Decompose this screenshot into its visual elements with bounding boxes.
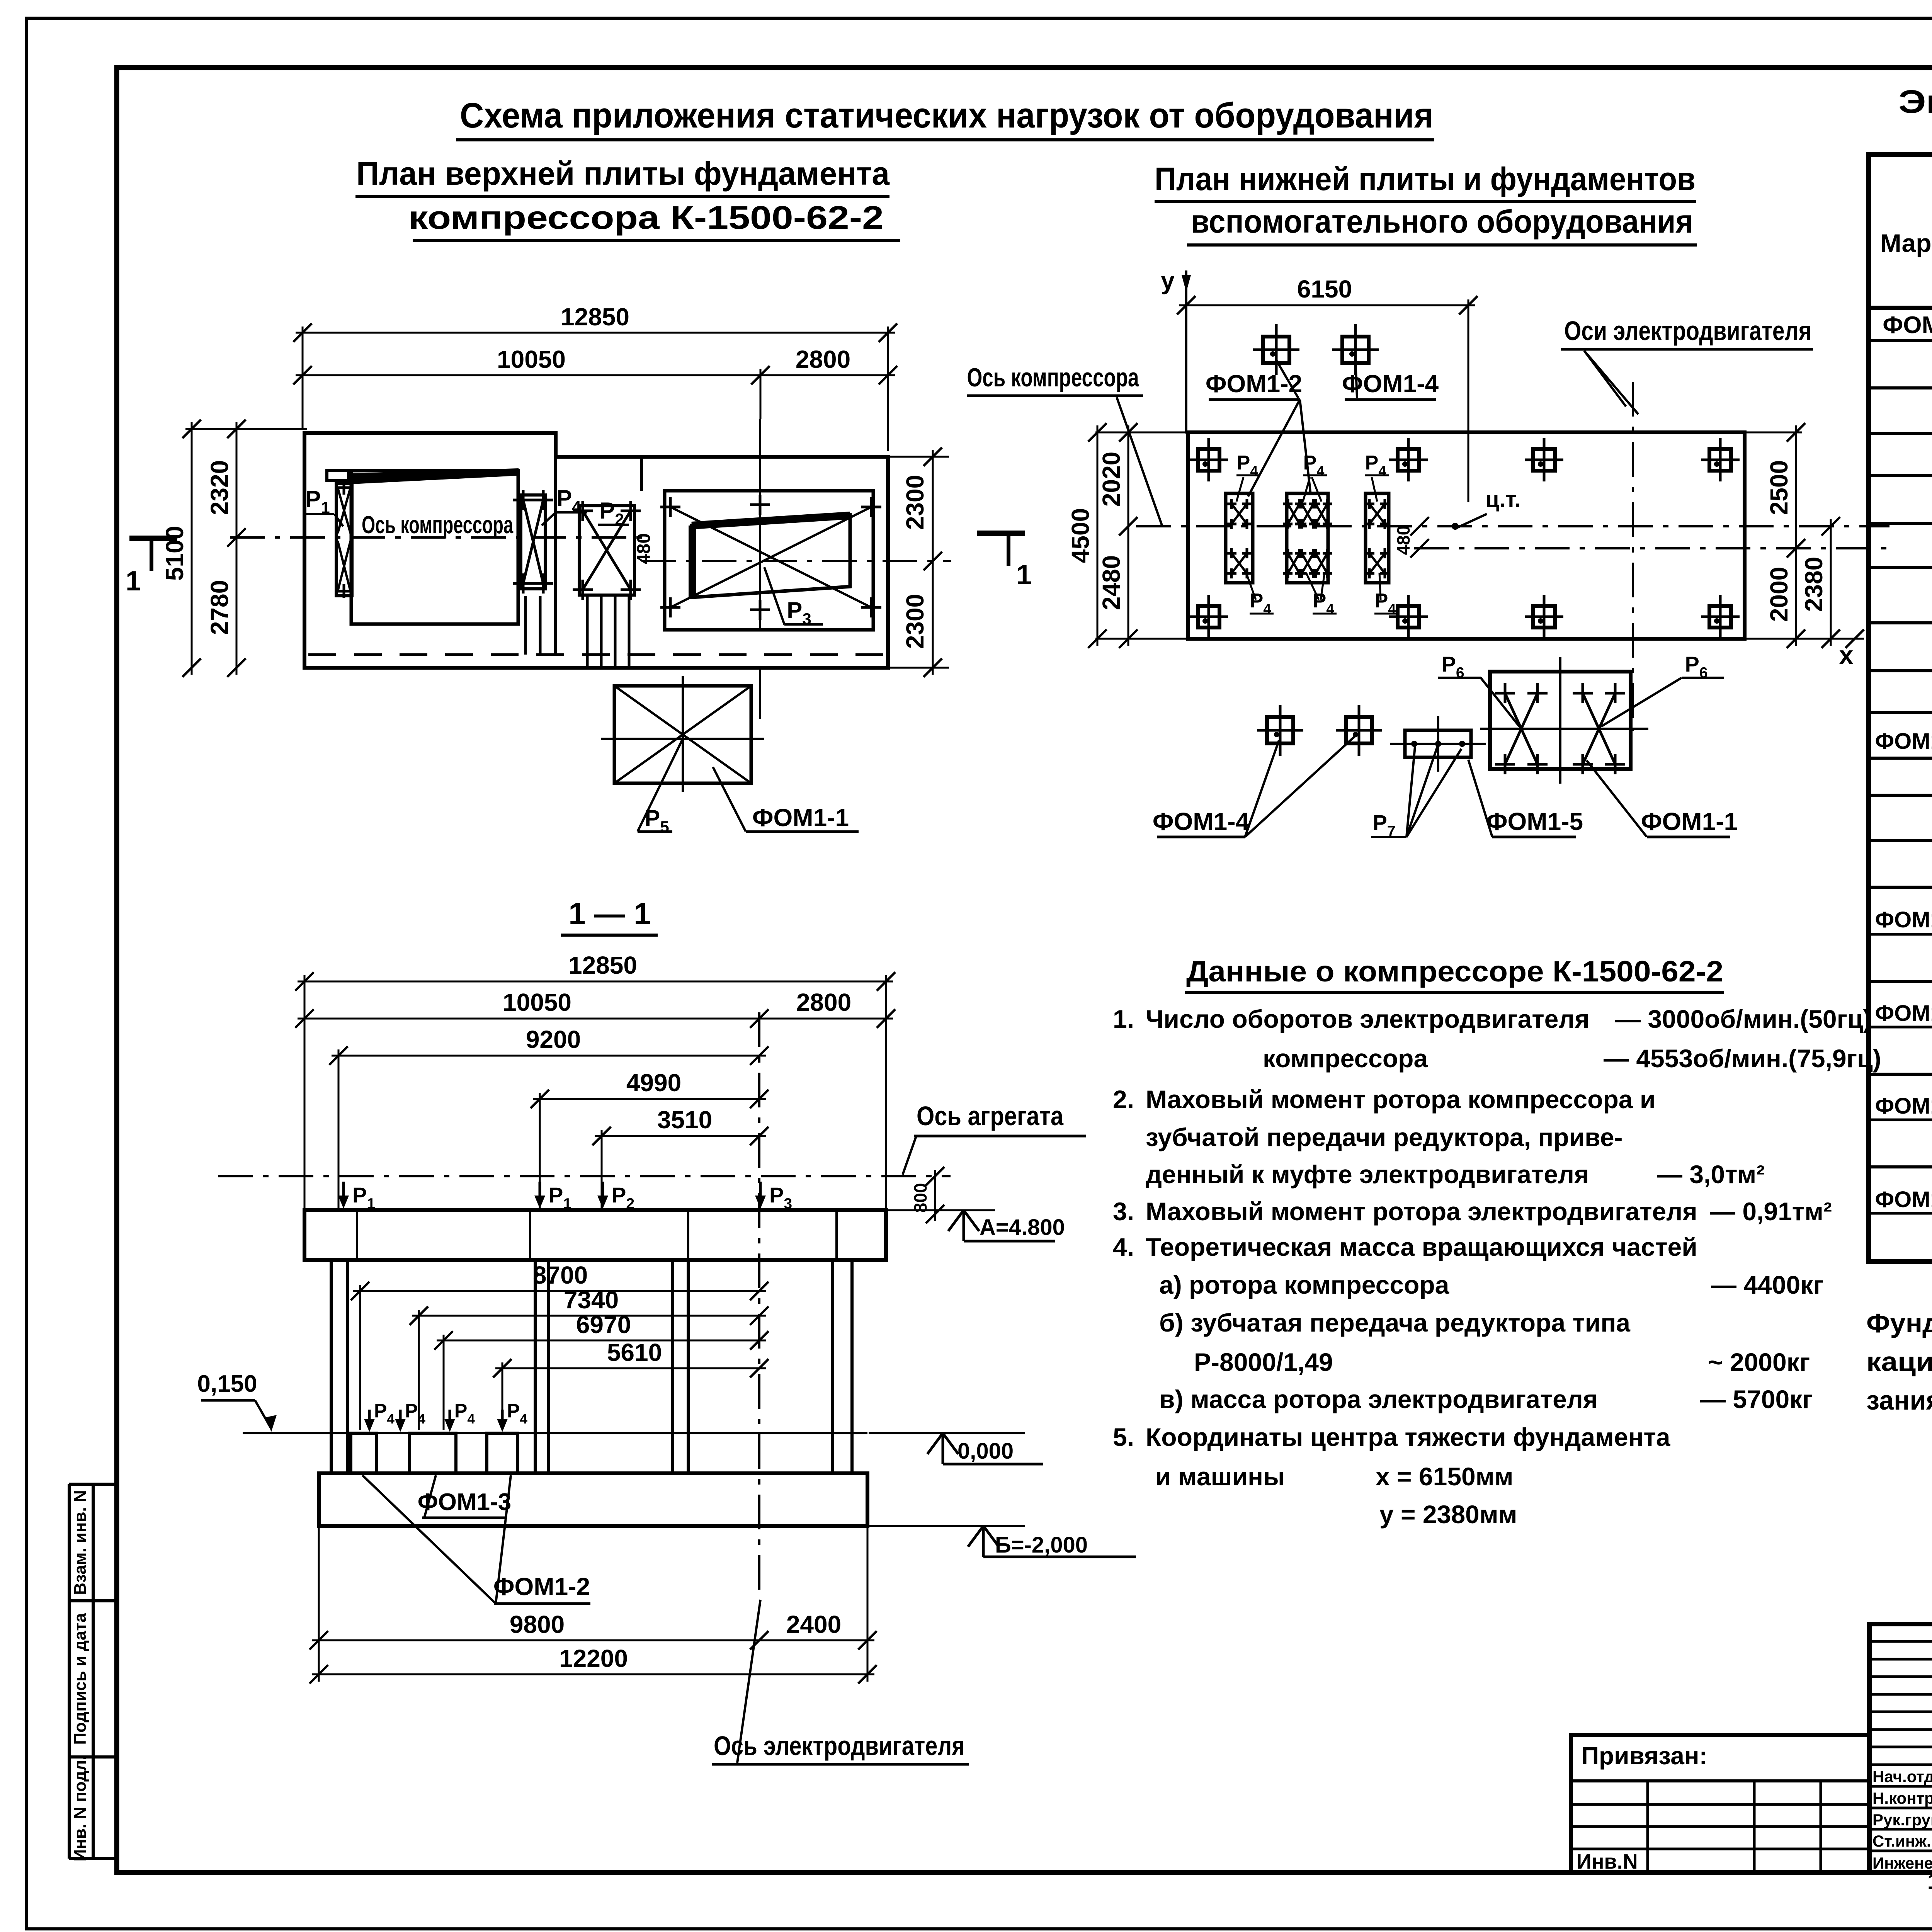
svg-text:— 3000об/мин.(50гц): — 3000об/мин.(50гц) xyxy=(1615,1005,1872,1033)
svg-text:2320: 2320 xyxy=(206,460,233,515)
ground level line xyxy=(243,1432,867,1434)
compressor axis line xyxy=(230,536,643,539)
svg-text:4.: 4. xyxy=(1113,1233,1134,1261)
anchor bolts top row xyxy=(1198,449,1219,471)
svg-text:Данные о компрессоре К-1500-62: Данные о компрессоре К-1500-62-2 xyxy=(1186,955,1723,988)
svg-text:2500: 2500 xyxy=(1765,460,1793,515)
motor center vertical xyxy=(759,419,761,630)
section mark 1 right side xyxy=(977,531,1025,536)
svg-text:2400: 2400 xyxy=(786,1611,841,1638)
svg-text:5.: 5. xyxy=(1113,1423,1134,1451)
svg-text:x = 6150мм: x = 6150мм xyxy=(1376,1462,1513,1491)
svg-text:Теоретическая масса вращающихс: Теоретическая масса вращающихся частей xyxy=(1146,1233,1697,1261)
svg-text:Привязан:: Привязан: xyxy=(1581,1742,1708,1770)
compressor axis middle plan xyxy=(1136,525,1889,527)
foundation FOM1-1 plan right xyxy=(1490,672,1631,769)
svg-text:ФОМ1-5: ФОМ1-5 xyxy=(1486,808,1583,835)
section dim 5610 xyxy=(495,1367,766,1369)
svg-text:480: 480 xyxy=(1393,526,1413,555)
pipes below compressor xyxy=(524,596,527,655)
svg-text:компрессора К-1500-62-2: компрессора К-1500-62-2 xyxy=(408,199,884,236)
svg-text:2800: 2800 xyxy=(796,988,851,1016)
left plan dim 12850 xyxy=(296,332,895,334)
table row lines xyxy=(1869,339,1932,342)
svg-text:денный к муфте электродвигател: денный к муфте электродвигателя xyxy=(1146,1160,1589,1189)
division wall xyxy=(554,457,557,655)
svg-text:б) зубчатая передача редуктора: б) зубчатая передача редуктора типа xyxy=(1159,1308,1631,1337)
svg-text:Нач.отд.: Нач.отд. xyxy=(1872,1767,1932,1786)
svg-text:— 5700кг: — 5700кг xyxy=(1700,1385,1813,1413)
svg-text:1 — 1: 1 — 1 xyxy=(568,896,651,931)
svg-text:Координаты центра тяжести фунд: Координаты центра тяжести фундамента xyxy=(1146,1423,1671,1451)
svg-text:Ось компрессора: Ось компрессора xyxy=(362,511,513,539)
section dim 9200 xyxy=(332,1055,766,1057)
svg-text:Ст.инж.: Ст.инж. xyxy=(1872,1832,1931,1850)
svg-text:Взам. инв. N: Взам. инв. N xyxy=(71,1490,90,1595)
middle plan right dim 2380 xyxy=(1830,519,1832,646)
left plan dim 10050 and 2800 xyxy=(296,374,895,376)
svg-text:12850: 12850 xyxy=(561,303,629,331)
svg-text:— 4553об/мин.(75,9гц): — 4553об/мин.(75,9гц) xyxy=(1604,1044,1881,1073)
load arrow P2 xyxy=(602,1182,604,1204)
elevation 0.000 xyxy=(869,1432,1025,1434)
foundation FOM1-5 plan xyxy=(1405,730,1471,757)
svg-text:Рук.группы: Рук.группы xyxy=(1872,1811,1932,1829)
svg-text:Марка: Марка xyxy=(1880,229,1932,257)
svg-text:1: 1 xyxy=(1927,1869,1932,1893)
svg-text:Ось компрессора: Ось компрессора xyxy=(967,363,1139,392)
svg-text:Инв.N: Инв.N xyxy=(1577,1850,1638,1873)
svg-text:10050: 10050 xyxy=(503,988,571,1016)
svg-text:10050: 10050 xyxy=(497,345,566,373)
pedestal rect 3 xyxy=(1366,493,1389,583)
svg-text:12200: 12200 xyxy=(559,1645,628,1672)
motor axis vertical section xyxy=(758,1012,760,1596)
svg-text:План нижней плиты и фундаменто: План нижней плиты и фундаментов xyxy=(1155,161,1696,197)
foundation FOM1-1 oil tank plan xyxy=(614,686,751,783)
table outer frame xyxy=(1869,155,1932,1262)
section dim 12850 xyxy=(298,981,893,983)
middle plan right dims 2500 2000 xyxy=(1795,425,1797,646)
svg-text:— 0,91тм²: — 0,91тм² xyxy=(1710,1197,1832,1226)
svg-text:1: 1 xyxy=(1016,560,1032,590)
motor axis horizontal middle plan xyxy=(1414,547,1891,549)
svg-text:— 4400кг: — 4400кг xyxy=(1711,1270,1824,1299)
middle plan left dims 2020 2480 xyxy=(1128,425,1129,646)
svg-text:0,000: 0,000 xyxy=(957,1439,1014,1464)
dim 800 xyxy=(934,1170,936,1221)
svg-text:План верхней плиты фундамента: План верхней плиты фундамента xyxy=(356,155,890,192)
svg-text:и машины: и машины xyxy=(1155,1462,1285,1491)
bolt group P4 rectangle xyxy=(521,495,545,589)
svg-text:2000: 2000 xyxy=(1765,567,1793,622)
svg-text:3510: 3510 xyxy=(657,1106,712,1134)
aircooler pads above slab xyxy=(1263,337,1289,363)
svg-text:а) ротора компрессора: а) ротора компрессора xyxy=(1159,1270,1450,1299)
svg-text:2780: 2780 xyxy=(206,580,233,635)
left filing strip xyxy=(68,1484,71,1859)
svg-text:6970: 6970 xyxy=(576,1311,631,1338)
svg-text:800: 800 xyxy=(910,1183,930,1213)
svg-text:ФОМ1-4: ФОМ1-4 xyxy=(1153,808,1250,835)
svg-text:ФОМ1-2: ФОМ1-2 xyxy=(493,1573,590,1600)
left plan outline of upper slab xyxy=(304,433,888,668)
section dim 3510 xyxy=(595,1135,766,1137)
elevation mark A=4.800 xyxy=(888,1209,995,1211)
svg-text:3.: 3. xyxy=(1113,1197,1134,1226)
bolt group P1 rectangle xyxy=(336,483,352,596)
svg-text:Инв. N подл.: Инв. N подл. xyxy=(71,1755,90,1862)
privyazan box xyxy=(1571,1735,1869,1872)
svg-text:ФОМ1-4: ФОМ1-4 xyxy=(1875,1094,1932,1119)
left plan small notch xyxy=(327,471,349,481)
svg-text:0,150: 0,150 xyxy=(197,1371,257,1397)
section dim 12200 xyxy=(312,1673,874,1675)
pedestal rect 1 xyxy=(1226,493,1253,583)
upper slab section xyxy=(304,1210,886,1260)
svg-text:Фундамент компрессора К-1500,: Фундамент компрессора К-1500, обозначенн… xyxy=(1866,1308,1932,1338)
left plan left dims 2320 2780 xyxy=(236,422,238,675)
svg-text:— 3,0тм²: — 3,0тм² xyxy=(1657,1160,1765,1189)
pedestal rect 2 xyxy=(1287,493,1328,583)
svg-text:в) масса ротора электродвигате: в) масса ротора электродвигателя xyxy=(1159,1385,1598,1413)
svg-text:2800: 2800 xyxy=(796,345,850,373)
svg-text:2480: 2480 xyxy=(1097,555,1125,610)
svg-text:Ось электродвигателя: Ось электродвигателя xyxy=(714,1731,965,1761)
svg-text:ц.т.: ц.т. xyxy=(1485,487,1520,512)
columns of frame xyxy=(330,1260,333,1473)
svg-text:Схема приложения статических н: Схема приложения статических нагрузок от… xyxy=(460,96,1434,135)
svg-text:2300: 2300 xyxy=(901,475,929,530)
svg-text:Инженер: Инженер xyxy=(1872,1854,1932,1872)
svg-text:Подпись и дата: Подпись и дата xyxy=(71,1613,90,1745)
svg-text:9800: 9800 xyxy=(510,1611,565,1638)
svg-text:вспомогательного оборудования: вспомогательного оборудования xyxy=(1191,203,1693,240)
section dim 9800 2400 xyxy=(318,1528,320,1682)
svg-text:ФОМ1-3: ФОМ1-3 xyxy=(1875,1001,1932,1026)
machine axis line xyxy=(218,1175,951,1177)
svg-text:ФОМ1-1: ФОМ1-1 xyxy=(1875,729,1932,754)
svg-text:~ 2000кг: ~ 2000кг xyxy=(1708,1348,1810,1376)
lower slab rectangle xyxy=(1188,432,1745,639)
section dim 7340 xyxy=(412,1315,766,1317)
svg-text:2020: 2020 xyxy=(1097,452,1125,507)
svg-text:у: у xyxy=(1161,267,1175,294)
svg-text:5100: 5100 xyxy=(161,526,189,581)
left plan left dim 5100 xyxy=(191,422,193,675)
section dim 8700 xyxy=(353,1290,766,1292)
table header bottom xyxy=(1869,306,1932,310)
svg-text:зания марки компрессора.: зания марки компрессора. xyxy=(1866,1385,1932,1415)
load arrows P4 row xyxy=(368,1410,371,1427)
svg-text:1: 1 xyxy=(126,566,141,597)
svg-text:2.: 2. xyxy=(1113,1085,1134,1114)
svg-text:кации ФОМ1, далее на чертежах: кации ФОМ1, далее на чертежах приводится… xyxy=(1866,1347,1932,1377)
motor diagonals xyxy=(670,507,871,607)
svg-text:6150: 6150 xyxy=(1297,275,1352,303)
table sub row lines xyxy=(1869,933,1932,936)
svg-text:12850: 12850 xyxy=(568,951,637,979)
svg-text:x: x xyxy=(1839,641,1854,669)
svg-text:ФОМ1-2: ФОМ1-2 xyxy=(1206,370,1302,398)
svg-text:8700: 8700 xyxy=(533,1261,588,1289)
svg-text:Экспликация фундаментов и стат: Экспликация фундаментов и статические xyxy=(1898,83,1932,120)
section dim 10050 2800 xyxy=(298,1018,893,1020)
pedestals on mat xyxy=(351,1433,377,1473)
svg-text:Ось агрегата: Ось агрегата xyxy=(917,1101,1064,1131)
svg-text:Число оборотов электродвигате: Число оборотов электродвигателя xyxy=(1146,1005,1590,1033)
svg-text:у = 2380мм: у = 2380мм xyxy=(1379,1500,1517,1529)
anchor bolts bottom row xyxy=(1198,606,1219,628)
load arrow P3 xyxy=(759,1182,762,1204)
svg-text:2380: 2380 xyxy=(1800,557,1828,612)
svg-text:5610: 5610 xyxy=(607,1338,662,1366)
svg-text:2300: 2300 xyxy=(901,594,929,649)
foundation pads FOM1-4 below slab xyxy=(1267,717,1293,743)
svg-text:9200: 9200 xyxy=(526,1026,581,1053)
svg-text:Р-8000/1,49: Р-8000/1,49 xyxy=(1194,1348,1333,1376)
compressor body xyxy=(351,471,518,624)
svg-text:ФОМ1: ФОМ1 xyxy=(1883,312,1932,338)
elevation B=-2.000 xyxy=(869,1525,1025,1527)
svg-text:ФОМ1-1: ФОМ1-1 xyxy=(752,804,849,832)
left plan right dims 2300 2300 xyxy=(932,450,934,675)
svg-text:зубчатой передачи редуктора, п: зубчатой передачи редуктора, приве- xyxy=(1146,1123,1623,1151)
svg-text:1.: 1. xyxy=(1113,1005,1134,1033)
svg-text:Оси электродвигателя: Оси электродвигателя xyxy=(1564,316,1811,346)
load arrow P1 mid xyxy=(539,1182,541,1204)
motor axis line xyxy=(641,560,951,562)
svg-text:Маховый момент ротора электрод: Маховый момент ротора электродвигателя xyxy=(1146,1197,1697,1226)
y axis line xyxy=(1185,270,1187,434)
svg-text:А=4.800: А=4.800 xyxy=(980,1215,1065,1240)
motor pit rectangle xyxy=(665,491,873,630)
svg-text:4990: 4990 xyxy=(626,1069,681,1097)
foundation mat section xyxy=(319,1473,867,1526)
svg-text:ФОМ1-2: ФОМ1-2 xyxy=(1875,907,1932,932)
motor body xyxy=(692,515,850,597)
load arrow P1 left xyxy=(342,1182,345,1204)
svg-text:7340: 7340 xyxy=(564,1286,619,1314)
title block top border xyxy=(1869,1622,1932,1626)
section dim 4990 xyxy=(533,1098,766,1100)
middle plan dim 6150 xyxy=(1179,304,1475,306)
svg-text:4500: 4500 xyxy=(1066,508,1094,563)
section dim 6970 xyxy=(437,1340,766,1342)
svg-text:ФОМ1-1: ФОМ1-1 xyxy=(1641,808,1738,835)
middle plan left dim 4500 xyxy=(1097,425,1099,646)
bolt group P2 rectangle xyxy=(579,506,634,595)
svg-text:Б=-2,000: Б=-2,000 xyxy=(995,1532,1088,1558)
left plan hidden edge dashed xyxy=(308,653,885,656)
svg-text:Н.контр.: Н.контр. xyxy=(1872,1789,1932,1807)
section mark 1 left side xyxy=(129,536,177,541)
svg-text:компрессора: компрессора xyxy=(1263,1044,1428,1073)
signature table name rows xyxy=(1869,1785,1932,1788)
motor axis vertical middle plan xyxy=(1632,382,1634,731)
signature table outline xyxy=(1869,1624,1932,1872)
signature table thin rows xyxy=(1869,1640,1932,1643)
svg-text:480: 480 xyxy=(634,533,654,564)
svg-text:ФОМ1-5: ФОМ1-5 xyxy=(1875,1187,1932,1212)
svg-text:Маховый момент ротора компресс: Маховый момент ротора компрессора и xyxy=(1146,1085,1655,1114)
